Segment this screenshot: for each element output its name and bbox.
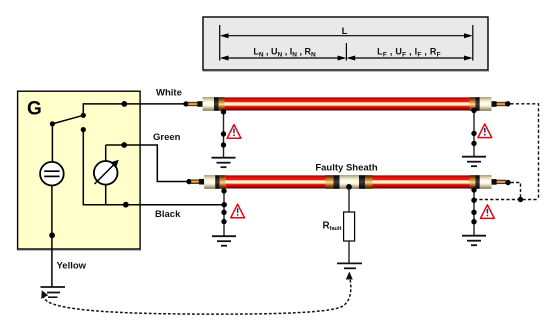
ground: fault earth <box>337 263 362 268</box>
ground: cable1 right <box>462 157 486 167</box>
fault joint right copper band <box>365 175 373 189</box>
warning triangle 3 <box>231 204 245 218</box>
node: switch contact lower <box>81 127 86 132</box>
ground: cable2 left <box>212 236 236 246</box>
cable2 left conductor rod <box>191 180 199 184</box>
dimension legend box <box>203 17 490 71</box>
cable1 right copper band <box>470 97 476 111</box>
wire: lower contact to black bus <box>82 130 84 205</box>
wire: cable2 right sheath earth <box>473 190 475 236</box>
node: cable2 left sheath <box>221 188 226 193</box>
wire: fault to resistor <box>348 187 350 212</box>
label LF UF IF RF <box>377 47 441 59</box>
dimension arrow LF (far section) <box>346 56 472 61</box>
node: cable2 right conductor tip <box>505 180 510 185</box>
node: cable2 left earth link a <box>221 210 226 215</box>
node: cable2 right earth link b <box>471 219 476 224</box>
tick right <box>472 25 474 61</box>
tick middle <box>345 43 347 61</box>
warning triangle 1 <box>227 125 241 139</box>
label L <box>342 26 348 37</box>
cable2 left insulation <box>204 175 215 189</box>
node: cable2 right sheath <box>471 187 476 192</box>
cable2 red sheath left section <box>226 175 326 188</box>
cable1 right black band <box>476 97 480 111</box>
resistor Rfault <box>323 212 355 241</box>
fault joint left black band <box>334 175 340 189</box>
node: Yellow terminal <box>49 232 55 238</box>
svg-text:White: White <box>156 88 182 99</box>
meter M1 <box>94 145 119 205</box>
cable2 right copper band <box>470 175 476 189</box>
wire: White output <box>83 103 186 105</box>
ground: station earth (Yellow) <box>41 287 66 297</box>
label LN UN IN RN <box>253 47 316 59</box>
node: cable1 right sheath <box>471 108 476 113</box>
wire: resistor to ground <box>348 241 350 263</box>
cable1 left collar <box>198 101 203 107</box>
fault joint exposed insulation <box>340 175 360 189</box>
node: switch contact upper <box>81 113 86 118</box>
node: cable1 right earth link a <box>471 131 476 136</box>
node: cable2 left earth link b <box>221 219 226 224</box>
wire: Black output <box>83 204 225 206</box>
node: cable2 left conductor tip <box>186 179 191 184</box>
cable2 right conductor rod <box>497 180 506 184</box>
switch blade <box>52 115 83 124</box>
wire: cable1 right sheath earth <box>473 111 475 157</box>
cable1 left conductor rod <box>188 102 198 106</box>
cable2 left collar <box>199 179 204 185</box>
wire: dashed remote link cable1 <box>511 104 539 200</box>
node: cable1 left sheath <box>221 109 226 114</box>
cable1 red sheath body <box>225 97 470 110</box>
cable1 left copper band <box>219 97 225 111</box>
cable1 left insulation <box>203 97 215 111</box>
ground: cable1 left <box>212 158 236 168</box>
node: cable1 left conductor tip <box>183 101 188 106</box>
cable2 red sheath right section <box>373 175 470 188</box>
node: Green terminal <box>121 142 127 148</box>
generator box G <box>17 91 141 250</box>
node: cable2 right earth link a <box>471 210 476 215</box>
dimension arrow L (total length) <box>220 33 473 38</box>
wire: dashed remote link cable2 <box>511 183 521 200</box>
cable2 right collar <box>492 179 497 185</box>
node: switch pivot <box>50 121 55 126</box>
node: cable1 left earth link b <box>221 142 226 147</box>
wire: generator bottom lead <box>51 186 53 287</box>
cable1 right insulation <box>480 97 492 111</box>
cable1 right conductor rod <box>497 102 506 106</box>
node: White terminal <box>121 101 127 107</box>
dimension arrow LN (near section) <box>220 56 347 61</box>
svg-text:L: L <box>342 26 348 37</box>
node: remote bond tee <box>471 198 476 203</box>
node: cable1 right earth link b <box>471 141 476 146</box>
cable2 right insulation <box>480 175 492 189</box>
svg-text:Yellow: Yellow <box>57 261 87 272</box>
wire: generator top to switch pivot <box>51 124 53 162</box>
svg-text:G: G <box>27 99 42 120</box>
label Black <box>155 209 181 220</box>
svg-text:Rfault: Rfault <box>323 221 342 233</box>
source U1 (DC generator) <box>40 162 64 186</box>
cable1 left black band <box>214 97 219 111</box>
cable2 right black band <box>476 175 480 189</box>
svg-text:Faulty Sheath: Faulty Sheath <box>315 163 377 174</box>
wire: upper contact riser <box>82 104 84 115</box>
cable1 right collar <box>492 101 497 107</box>
node: Black terminal <box>123 202 129 208</box>
fault joint left copper band <box>326 175 334 189</box>
wire: cable1 left sheath earth <box>223 112 225 158</box>
label Green <box>153 132 181 143</box>
wire: Green output <box>106 145 189 182</box>
wire: dashed earth return path <box>41 272 353 315</box>
svg-text:Green: Green <box>153 132 181 143</box>
node: cable1 left earth link a <box>221 131 226 136</box>
tick left <box>219 25 221 61</box>
warning triangle 2 <box>478 124 492 138</box>
svg-text:Black: Black <box>155 209 181 220</box>
node: remote bond junction <box>518 197 523 202</box>
ground: cable2 right <box>462 236 486 246</box>
label White <box>156 88 182 99</box>
fault joint right black band <box>359 175 365 189</box>
cable2 left black band <box>215 175 220 189</box>
node: black tee <box>222 202 227 207</box>
label Yellow <box>57 261 87 272</box>
cable2 left copper band <box>220 175 226 189</box>
wire: cable2 left sheath earth <box>223 191 225 236</box>
warning triangle 4 <box>481 205 495 219</box>
wire: dashed remote bond bus <box>474 199 539 201</box>
node: fault point <box>346 184 352 190</box>
node: cable1 right conductor tip <box>505 101 510 106</box>
label Faulty Sheath <box>315 163 377 174</box>
